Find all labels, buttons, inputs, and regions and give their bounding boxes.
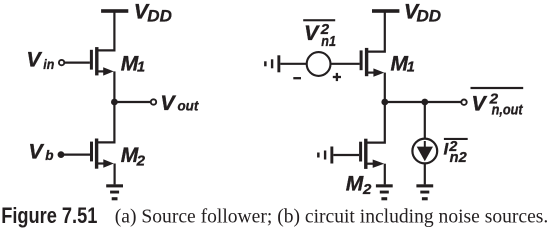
node Vb dot (a) bbox=[58, 151, 65, 158]
label VDD (b) bbox=[404, 0, 441, 26]
wire VDD bar to M1 drain (b) bbox=[367, 12, 385, 52]
svg-text:M: M bbox=[346, 173, 364, 196]
output terminal Vnout open circle (b) bbox=[461, 100, 466, 105]
transistor M1 (a) bbox=[90, 47, 114, 76]
wire output rail to Vnout terminal (b) bbox=[385, 101, 461, 103]
label Vin (a) bbox=[26, 48, 54, 72]
wire noise source Vn1 to M1 gate (b) bbox=[330, 63, 359, 65]
svg-text:1: 1 bbox=[407, 59, 415, 75]
polarity minus (b) bbox=[293, 77, 301, 79]
VDD supply bar (b) bbox=[372, 9, 399, 13]
svg-text:1: 1 bbox=[137, 59, 145, 75]
wire M1 source to output node (a) bbox=[113, 71, 115, 102]
wire VDD bar to M1 drain (a) bbox=[97, 12, 115, 50]
wire M2 source to ground (b) bbox=[384, 164, 386, 185]
noise current source In2 (b) bbox=[412, 139, 437, 164]
svg-text:(a) Source follower; (b) circu: (a) Source follower; (b) circuit includi… bbox=[115, 206, 549, 228]
noise voltage source Vn1 (b) bbox=[307, 52, 331, 76]
svg-text:out: out bbox=[178, 97, 200, 113]
ground below In2 (b) bbox=[416, 184, 433, 200]
wire AC ground to M2 gate (b) bbox=[333, 154, 359, 156]
transistor M1 (b) bbox=[360, 48, 385, 77]
svg-text:V: V bbox=[471, 92, 487, 116]
ground (a) bbox=[106, 184, 123, 200]
input terminal Vin open circle (a) bbox=[59, 60, 64, 65]
label Vn1 squared with overline (b) bbox=[303, 19, 336, 50]
wire output node to M2 drain (b) bbox=[367, 102, 385, 143]
transistor M2 (b) bbox=[359, 139, 384, 169]
wire M2 source to ground (a) bbox=[113, 164, 115, 185]
svg-text:n2: n2 bbox=[450, 150, 467, 166]
label Vout (a) bbox=[160, 91, 199, 115]
wire In2 node to current source (b) bbox=[424, 102, 426, 139]
label M1 (a) bbox=[121, 53, 145, 76]
svg-text:n1: n1 bbox=[321, 34, 336, 50]
transistor M2 (a) bbox=[90, 139, 114, 169]
svg-text:2: 2 bbox=[136, 153, 146, 170]
wire M1 source to output node (b) bbox=[384, 73, 386, 102]
polarity plus (b) bbox=[333, 73, 341, 81]
output terminal Vout open circle (a) bbox=[151, 99, 156, 104]
node output (a) bbox=[111, 99, 118, 106]
caption bbox=[1, 203, 548, 228]
wire Vb to M2 gate (a) bbox=[61, 154, 90, 156]
svg-text:in: in bbox=[43, 56, 54, 72]
label In2 squared with overline (b) bbox=[444, 138, 468, 166]
wire AC ground to noise source Vn1 (b) bbox=[280, 63, 307, 65]
svg-text:V: V bbox=[304, 21, 320, 45]
svg-text:2: 2 bbox=[362, 181, 372, 198]
AC ground at M2 gate (b) bbox=[317, 147, 333, 164]
node output (b) bbox=[381, 99, 388, 106]
wire output node to M2 drain (a) bbox=[97, 102, 115, 142]
wire output node to Vout terminal (a) bbox=[114, 101, 150, 103]
label M2 (b) bbox=[346, 173, 372, 199]
svg-text:V: V bbox=[28, 139, 44, 163]
svg-text:V: V bbox=[160, 91, 176, 115]
label VDD (a) bbox=[134, 0, 172, 26]
svg-text:DD: DD bbox=[417, 7, 442, 26]
label Vnout squared with overline (b) bbox=[471, 87, 524, 119]
VDD supply bar (a) bbox=[101, 9, 128, 13]
AC ground at Vn1 left terminal (b) bbox=[264, 55, 280, 72]
label Vb (a) bbox=[28, 139, 53, 163]
svg-text:V: V bbox=[26, 48, 42, 72]
svg-text:n,out: n,out bbox=[492, 102, 524, 118]
svg-text:DD: DD bbox=[147, 7, 172, 26]
label M2 (a) bbox=[121, 144, 146, 169]
label M1 (b) bbox=[391, 53, 415, 76]
node In2 branch (b) bbox=[421, 99, 428, 106]
wire current source to ground (b) bbox=[424, 163, 426, 184]
ground below M2 (b) bbox=[376, 184, 393, 200]
svg-text:Figure 7.51: Figure 7.51 bbox=[1, 203, 97, 228]
wire Vin terminal to M1 gate (a) bbox=[65, 61, 90, 63]
svg-text:b: b bbox=[45, 148, 53, 163]
